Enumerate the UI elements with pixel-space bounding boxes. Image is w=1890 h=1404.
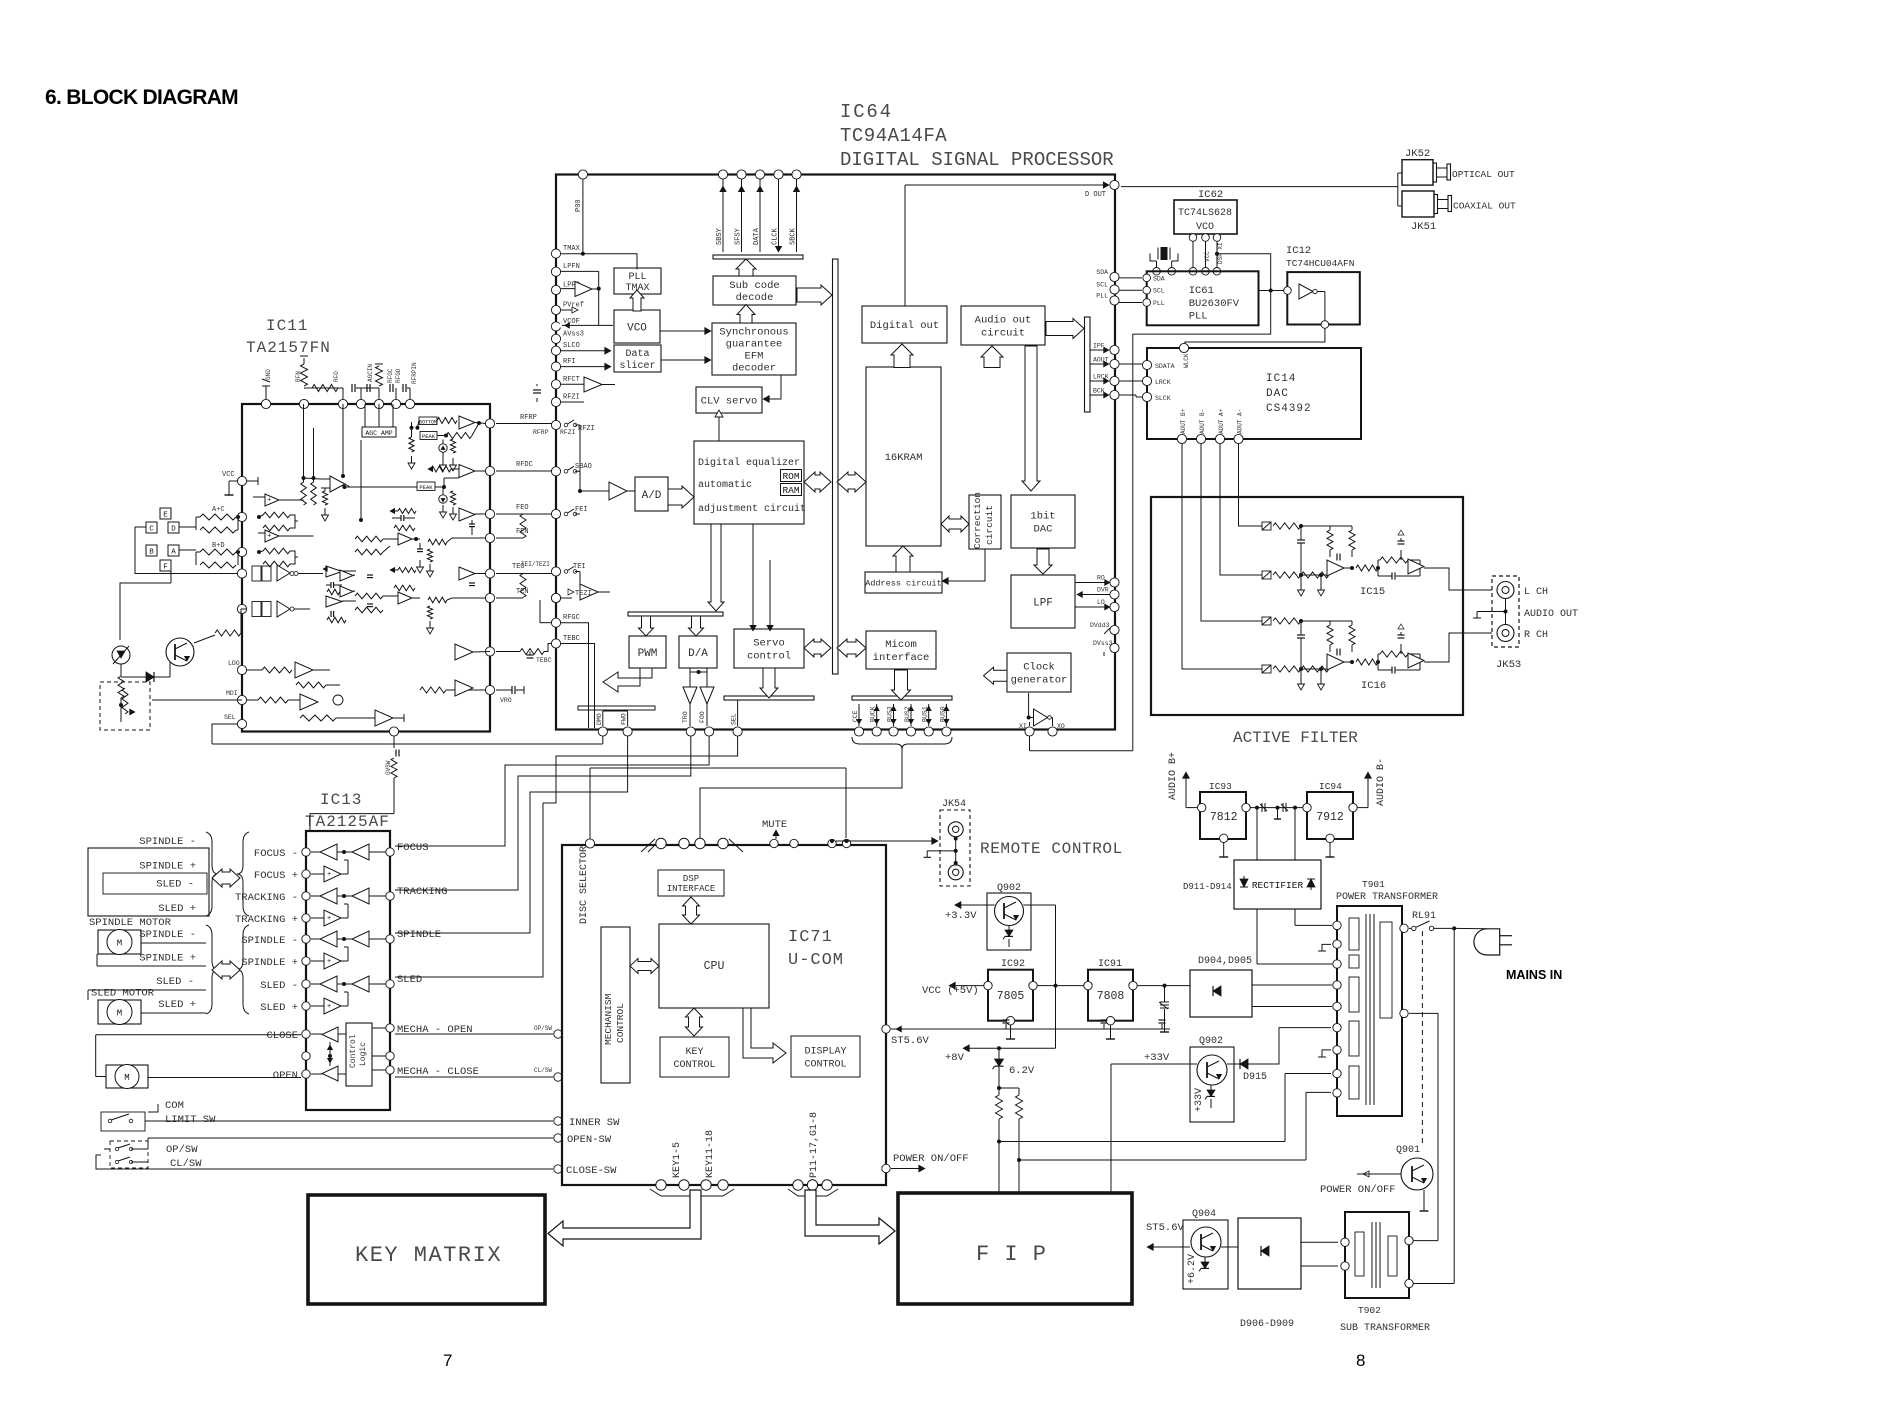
svg-text:CONTROL: CONTROL [673,1060,715,1071]
svg-text:U-COM: U-COM [788,951,844,970]
svg-text:D904,D905: D904,D905 [1198,956,1252,967]
svg-text:+3.3V: +3.3V [945,910,977,922]
svg-text:C: C [149,526,154,534]
svg-text:SDA: SDA [1153,275,1165,282]
svg-text:Q901: Q901 [1396,1145,1420,1156]
svg-text:DISC SELECTOR: DISC SELECTOR [579,846,590,924]
svg-text:TC94A14FA: TC94A14FA [840,125,947,147]
svg-text:SLCO: SLCO [563,342,580,350]
svg-text:ROM: ROM [782,471,799,482]
svg-text:GND: GND [265,369,272,380]
svg-text:circuit: circuit [981,328,1025,340]
svg-text:LPF: LPF [1033,597,1053,609]
svg-text:AUDIO B+: AUDIO B+ [1168,752,1179,800]
svg-text:CPU: CPU [704,960,725,973]
svg-text:A/D: A/D [642,490,662,502]
svg-text:control: control [747,651,791,663]
svg-text:PLL: PLL [1096,293,1108,300]
svg-text:LDO: LDO [228,660,240,667]
svg-text:SLED +: SLED + [158,999,196,1011]
svg-text:VCO: VCO [1196,222,1214,233]
svg-text:BOTTOM: BOTTOM [419,419,437,425]
svg-text:SPINDLE -: SPINDLE - [241,935,298,947]
svg-text:BCK: BCK [1093,388,1105,395]
svg-text:B: B [149,549,154,557]
svg-text:ST5.6V: ST5.6V [1146,1222,1185,1234]
svg-text:RFGC: RFGC [563,614,580,622]
svg-text:INNER SW: INNER SW [569,1117,620,1129]
svg-text:FWO: FWO [621,713,628,725]
svg-text:SPINDLE +: SPINDLE + [139,861,196,873]
svg-text:SLED +: SLED + [260,1002,298,1014]
svg-text:7: 7 [443,1351,452,1370]
svg-text:PEAK: PEAK [422,433,436,440]
svg-text:7912: 7912 [1316,811,1344,824]
svg-text:AUDIO OUT: AUDIO OUT [1524,609,1578,620]
svg-text:TRACKING: TRACKING [397,886,447,898]
svg-text:SLED -: SLED - [156,879,194,891]
svg-text:TEN: TEN [516,588,529,596]
svg-text:REMOTE CONTROL: REMOTE CONTROL [980,840,1123,858]
svg-text:CLCK: CLCK [772,227,780,245]
svg-text:LO: LO [1097,599,1105,606]
svg-text:IC14: IC14 [1266,373,1296,385]
svg-text:+: + [327,915,331,923]
svg-text:RFZI: RFZI [560,429,576,436]
svg-text:COM: COM [165,1100,184,1112]
svg-text:IC16: IC16 [1361,680,1386,692]
svg-text:SLED: SLED [397,974,422,986]
svg-text:CONTROL: CONTROL [615,1003,626,1043]
svg-text:SLED -: SLED - [260,980,298,992]
svg-text:AOUT A-: AOUT A- [1237,409,1244,434]
svg-text:guarantee: guarantee [726,339,783,351]
svg-text:PLL: PLL [1189,311,1208,323]
svg-text:SPINDLE: SPINDLE [397,929,441,941]
svg-text:DIGITAL SIGNAL PROCESSOR: DIGITAL SIGNAL PROCESSOR [840,149,1114,171]
svg-text:P00: P00 [575,199,583,212]
svg-text:+33V: +33V [1144,1052,1170,1064]
svg-text:XO: XO [1057,723,1065,730]
svg-text:Synchronous: Synchronous [719,327,788,339]
svg-text:CONTROL: CONTROL [804,1060,846,1071]
svg-text:SLED MOTOR: SLED MOTOR [91,988,155,1000]
svg-text:TEI: TEI [573,563,586,571]
svg-text:TRACKING -: TRACKING - [235,892,298,904]
svg-text:+8V: +8V [945,1052,965,1064]
svg-text:IC71: IC71 [788,928,833,947]
svg-text:TA2125AF: TA2125AF [305,813,390,831]
svg-text:Digital equalizer: Digital equalizer [698,457,800,469]
svg-text:SEL: SEL [224,714,236,721]
svg-text:SLED -: SLED - [156,976,194,988]
svg-text:6. BLOCK DIAGRAM: 6. BLOCK DIAGRAM [45,86,238,109]
svg-text:M: M [124,1073,129,1083]
svg-text:DVdd3: DVdd3 [1090,622,1110,629]
svg-text:TC74HCU04AFN: TC74HCU04AFN [1286,258,1354,269]
svg-text:8: 8 [1356,1351,1365,1370]
svg-text:TRO: TRO [682,711,689,723]
svg-text:CLOSE-SW: CLOSE-SW [566,1165,617,1177]
svg-text:RFZI: RFZI [578,425,595,433]
svg-text:LRCK: LRCK [1155,379,1171,386]
svg-text:SEL: SEL [731,713,738,725]
svg-text:interface: interface [873,652,930,664]
svg-text:M: M [117,1009,122,1019]
svg-text:TRACKING +: TRACKING + [235,914,298,926]
svg-text:Address circuit: Address circuit [865,578,942,588]
svg-text:RFGO: RFGO [395,368,402,383]
svg-text:LPFN: LPFN [563,263,580,271]
svg-text:SDATA: SDATA [1155,363,1175,370]
svg-text:FOO: FOO [699,711,706,723]
svg-text:Q904: Q904 [1192,1209,1216,1220]
svg-text:OPEN: OPEN [273,1070,298,1082]
svg-text:P11-17,G1-8: P11-17,G1-8 [809,1112,820,1178]
svg-text:+33V: +33V [1194,1088,1205,1112]
svg-text:SLED +: SLED + [158,903,196,915]
svg-text:TA2157FN: TA2157FN [246,339,331,357]
svg-text:CCE: CCE [852,710,859,722]
svg-text:Servo: Servo [753,638,785,650]
svg-text:PWM: PWM [638,648,658,660]
svg-text:+: + [327,871,331,879]
svg-text:FOCUS: FOCUS [397,842,429,854]
svg-text:MECHA - CLOSE: MECHA - CLOSE [397,1066,479,1078]
svg-text:+: + [327,958,331,966]
svg-text:KEY MATRIX: KEY MATRIX [355,1243,502,1268]
svg-text:JK54: JK54 [942,799,966,810]
svg-text:RFRP: RFRP [520,414,537,422]
svg-text:INTERFACE: INTERFACE [667,884,716,894]
svg-text:BUS0: BUS0 [939,706,946,722]
svg-text:IC92: IC92 [1001,959,1025,970]
svg-text:VCC (+5V): VCC (+5V) [922,985,979,997]
svg-text:AGC AMP: AGC AMP [365,430,392,437]
svg-text:TEBC: TEBC [563,635,580,643]
svg-text:ACTIVE FILTER: ACTIVE FILTER [1233,729,1358,747]
svg-text:slicer: slicer [619,360,655,372]
svg-text:POWER ON/OFF: POWER ON/OFF [1320,1184,1396,1196]
svg-text:circuit: circuit [984,505,995,545]
svg-text:WLCK: WLCK [1183,353,1190,368]
svg-text:SBCK: SBCK [790,227,798,245]
svg-text:AGCIN: AGCIN [367,364,374,382]
svg-text:F: F [163,564,168,572]
svg-text:CS4392: CS4392 [1266,403,1312,415]
svg-text:SPINDLE -: SPINDLE - [139,929,196,941]
svg-text:TEZI: TEZI [575,590,592,598]
svg-text:D OUT: D OUT [1085,191,1106,199]
svg-text:ST5.6V: ST5.6V [891,1035,930,1047]
svg-text:JK52: JK52 [1405,148,1430,160]
svg-text:IC61: IC61 [1189,285,1214,297]
svg-text:JK51: JK51 [1411,221,1436,233]
svg-text:T902: T902 [1358,1305,1381,1316]
svg-text:KEY11-18: KEY11-18 [705,1130,716,1178]
svg-text:A: A [171,549,176,557]
svg-text:OPTICAL OUT: OPTICAL OUT [1452,169,1515,180]
svg-text:PEAK: PEAK [419,484,433,491]
svg-text:7805: 7805 [997,990,1025,1003]
svg-text:SFSY: SFSY [735,227,743,245]
svg-text:AVss3: AVss3 [563,330,584,338]
svg-text:7808: 7808 [1097,990,1125,1003]
svg-text:+: + [327,1003,331,1011]
svg-text:E: E [163,512,168,520]
svg-text:MECHANISM: MECHANISM [603,993,614,1045]
svg-text:MUTE: MUTE [762,819,787,831]
svg-text:Sub code: Sub code [729,280,779,292]
svg-text:PLL: PLL [628,272,646,283]
svg-text:SPINDLE MOTOR: SPINDLE MOTOR [89,917,172,929]
svg-text:BUS3: BUS3 [887,706,894,722]
svg-text:Correction: Correction [972,492,983,549]
svg-text:BUS2: BUS2 [904,706,911,722]
svg-text:DSP XI: DSP XI [1217,242,1224,264]
svg-text:BU2630FV: BU2630FV [1189,298,1240,310]
svg-text:D915: D915 [1243,1072,1267,1083]
svg-text:D906-D909: D906-D909 [1240,1319,1294,1330]
svg-text:IPF: IPF [1093,343,1105,350]
svg-text:RO: RO [1097,575,1105,582]
svg-text:CLOSE: CLOSE [266,1030,298,1042]
svg-text:L CH: L CH [1524,587,1548,598]
svg-text:Control: Control [349,1034,358,1068]
svg-text:Clock: Clock [1023,662,1055,674]
svg-text:+: + [267,496,271,504]
svg-text:BUS1: BUS1 [922,706,929,722]
svg-text:D/A: D/A [688,648,708,660]
svg-text:Q902: Q902 [997,883,1021,894]
svg-text:RFGC: RFGC [387,368,394,383]
svg-text:SBAO: SBAO [575,463,592,471]
svg-text:MDI: MDI [226,690,238,697]
svg-text:SPINDLE +: SPINDLE + [241,957,298,969]
svg-text:Micom: Micom [885,639,917,651]
svg-text:Audio out: Audio out [975,315,1032,327]
svg-text:6.2V: 6.2V [1009,1065,1035,1077]
svg-text:OP/SW: OP/SW [166,1144,198,1156]
svg-text:LIMIT SW: LIMIT SW [165,1114,216,1126]
svg-text:SPINDLE +: SPINDLE + [139,953,196,965]
svg-text:XI: XI [1019,723,1027,730]
svg-text:OP/SW: OP/SW [534,1025,552,1032]
svg-text:IC12: IC12 [1286,245,1311,257]
svg-text:DVR: DVR [1097,587,1109,594]
svg-text:SCL: SCL [1096,282,1108,289]
svg-text:TEBC: TEBC [536,657,552,664]
svg-text:FOCUS +: FOCUS + [254,870,298,882]
svg-text:RFRPIN: RFRPIN [411,362,418,384]
svg-text:adjustment circuit: adjustment circuit [698,503,806,515]
svg-text:+: + [267,532,271,540]
svg-text:FOCUS -: FOCUS - [254,848,298,860]
svg-text:F I P: F I P [976,1242,1047,1267]
svg-text:PLL: PLL [1153,300,1165,307]
svg-text:Logic: Logic [359,1042,368,1066]
svg-text:KEY1-5: KEY1-5 [672,1142,683,1178]
svg-text:IC11: IC11 [266,317,308,335]
svg-text:POWER TRANSFORMER: POWER TRANSFORMER [1336,892,1438,903]
svg-text:IC64: IC64 [840,101,893,123]
svg-text:+6.2V: +6.2V [1187,1254,1198,1284]
svg-text:CL/SW: CL/SW [170,1158,202,1170]
svg-text:RECTIFIER: RECTIFIER [1252,880,1304,891]
svg-text:IC91: IC91 [1098,959,1122,970]
svg-text:7812: 7812 [1210,811,1238,824]
svg-text:SPINDLE -: SPINDLE - [139,836,196,848]
svg-text:RFO: RFO [333,371,340,382]
svg-text:VCC: VCC [1204,251,1211,262]
svg-text:COAXIAL OUT: COAXIAL OUT [1453,201,1516,212]
svg-text:DMO: DMO [596,713,603,725]
svg-text:RFDC: RFDC [516,461,533,469]
svg-text:DAC: DAC [1266,388,1289,400]
svg-text:IC94: IC94 [1319,781,1342,792]
svg-text:decoder: decoder [732,363,776,375]
svg-text:POWER ON/OFF: POWER ON/OFF [893,1153,969,1165]
svg-text:RFI: RFI [563,358,576,366]
svg-text:generator: generator [1011,675,1068,687]
svg-text:DISPLAY: DISPLAY [804,1047,846,1058]
svg-text:TC74LS628: TC74LS628 [1178,208,1232,219]
svg-text:M: M [117,939,122,949]
svg-text:VCO: VCO [627,322,647,334]
svg-text:Digital out: Digital out [870,320,939,332]
svg-text:AOUT B+: AOUT B+ [1180,408,1187,434]
svg-text:BUCK: BUCK [870,706,877,722]
svg-text:automatic: automatic [698,479,752,491]
svg-text:D911-D914: D911-D914 [1183,882,1232,892]
svg-text:RFZI: RFZI [563,394,580,402]
svg-text:RFN: RFN [295,371,302,382]
svg-text:VCC: VCC [222,471,235,479]
svg-text:RFRP: RFRP [533,429,549,436]
svg-text:SLCK: SLCK [1155,395,1171,402]
svg-text:KEY: KEY [685,1047,703,1058]
svg-text:CLV servo: CLV servo [701,396,758,408]
svg-text:EFM: EFM [745,351,764,363]
svg-text:Data: Data [625,349,649,360]
svg-text:decode: decode [736,292,774,304]
svg-text:MAINS IN: MAINS IN [1506,968,1562,982]
svg-text:T901: T901 [1362,879,1385,890]
svg-text:RFCT: RFCT [563,376,580,384]
svg-text:RAM: RAM [782,485,799,496]
svg-text:TMAX: TMAX [563,245,581,253]
svg-text:FEN: FEN [516,528,529,536]
svg-text:VRO: VRO [500,697,512,704]
svg-text:Q902: Q902 [1199,1036,1223,1047]
svg-text:1bit: 1bit [1030,511,1055,523]
svg-text:DAC: DAC [1034,524,1053,536]
svg-text:IC15: IC15 [1360,586,1385,598]
svg-text:DSP: DSP [683,874,699,884]
svg-text:AOUT B-: AOUT B- [1199,409,1206,434]
svg-text:FEI: FEI [575,506,588,514]
svg-text:RL91: RL91 [1412,911,1436,922]
svg-text:AUDIO B-: AUDIO B- [1376,758,1387,806]
svg-text:SCL: SCL [1153,288,1165,295]
svg-text:IC62: IC62 [1198,189,1223,201]
svg-text:SDA: SDA [1096,269,1108,276]
svg-text:TEI/TEZI: TEI/TEZI [521,561,550,568]
svg-text:SUB TRANSFORMER: SUB TRANSFORMER [1340,1323,1430,1334]
svg-text:DVss3: DVss3 [1093,640,1113,647]
svg-text:IC93: IC93 [1209,781,1232,792]
svg-text:JK53: JK53 [1496,659,1521,671]
svg-text:R CH: R CH [1524,630,1548,641]
svg-text:CL/SW: CL/SW [534,1067,552,1074]
svg-text:A+C: A+C [212,506,225,514]
svg-text:16KRAM: 16KRAM [885,452,923,464]
svg-text:FEO: FEO [516,504,529,512]
svg-text:OPEN-SW: OPEN-SW [567,1134,612,1146]
svg-text:D: D [171,526,176,534]
svg-text:IC13: IC13 [320,791,362,809]
svg-text:DATA: DATA [753,227,761,245]
svg-text:SBSY: SBSY [716,227,724,245]
svg-text:AOUT A+: AOUT A+ [1218,408,1225,434]
svg-text:B+D: B+D [212,542,225,550]
